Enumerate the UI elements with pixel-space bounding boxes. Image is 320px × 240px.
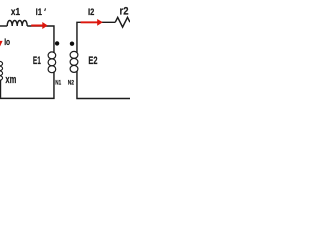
- wire E2 bottom lead and bottom-right wire: [77, 71, 130, 99]
- svg-text:E2: E2: [88, 55, 97, 67]
- svg-text:N2: N2: [68, 79, 75, 86]
- inductor x1: [7, 21, 27, 27]
- winding E2 coil: [70, 51, 78, 72]
- svg-text:I2: I2: [88, 7, 94, 17]
- svg-text:E1: E1: [33, 55, 41, 67]
- inductor xm (clipped at left edge): [0, 61, 3, 80]
- svg-text:r2: r2: [120, 6, 129, 18]
- winding E1 coil: [48, 52, 56, 73]
- current arrow Io (clipped at left edge): [0, 41, 3, 46]
- svg-text:x1: x1: [11, 7, 20, 18]
- svg-text:N1: N1: [55, 79, 61, 86]
- wire left stub: [0, 25, 7, 27]
- wire xm bottom lead: [0, 80, 2, 97]
- wire top-left to corner and down to winding: [27, 26, 54, 53]
- polarity dot E1: [55, 41, 59, 45]
- svg-text:I1: I1: [36, 7, 43, 18]
- resistor r2: [115, 17, 130, 27]
- current arrow I2: [81, 19, 103, 26]
- svg-text:xm: xm: [5, 74, 16, 86]
- prime of I1': [44, 8, 47, 11]
- svg-text:Io: Io: [4, 37, 10, 48]
- wire E1 bottom lead and bottom-left wire: [0, 72, 54, 99]
- current arrow I1': [31, 22, 48, 29]
- polarity dot E2: [70, 42, 74, 46]
- wire E2 top lead and top-right wire: [77, 22, 115, 53]
